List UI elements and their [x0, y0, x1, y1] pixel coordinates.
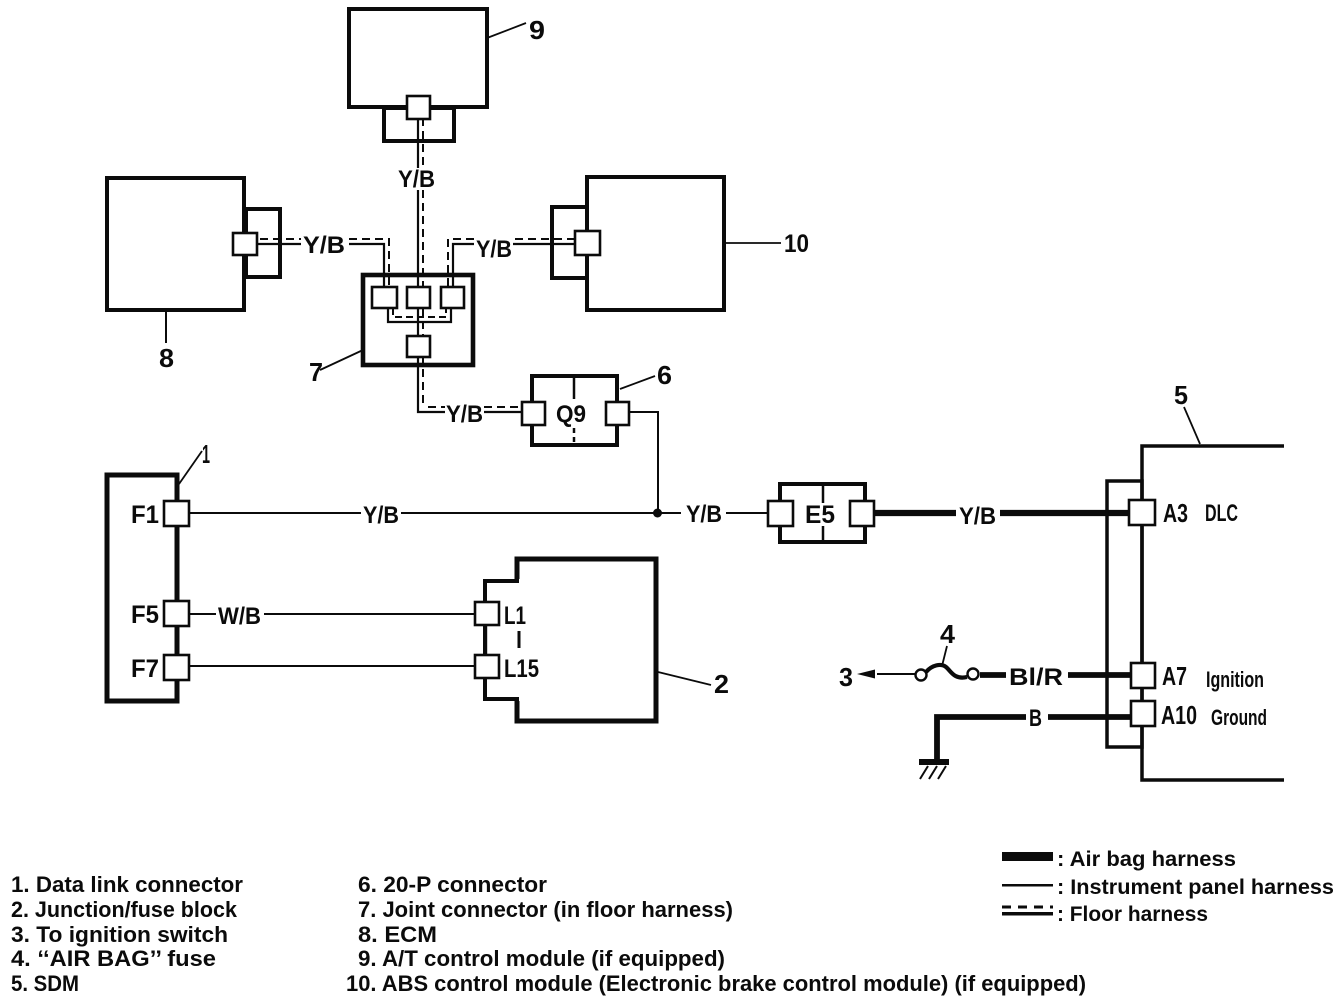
leader line to label 6	[620, 376, 655, 389]
svg-text:2. Junction/fuse block: 2. Junction/fuse block	[11, 897, 238, 922]
leader line to label 4	[942, 646, 947, 666]
pin of module 9	[407, 96, 430, 119]
svg-text:Bl/R: Bl/R	[1009, 664, 1063, 691]
module 9 connector shell	[384, 108, 454, 141]
floor harness wire: joint connector to connector Q9 (dashed)	[423, 356, 519, 407]
svg-text:: Instrument panel harness: : Instrument panel harness	[1057, 876, 1334, 899]
svg-text:10: 10	[784, 230, 809, 258]
svg-text:F5: F5	[131, 601, 159, 629]
pin of module 10	[575, 231, 600, 255]
svg-text:Y/B: Y/B	[446, 401, 483, 428]
svg-text:1. Data link connector: 1. Data link connector	[11, 872, 243, 897]
svg-text:E5: E5	[805, 501, 835, 529]
svg-text:4. ‘‘AIR BAG’’ fuse: 4. ‘‘AIR BAG’’ fuse	[11, 946, 216, 971]
svg-text:3. To ignition switch: 3. To ignition switch	[11, 922, 228, 947]
svg-text:A10: A10	[1161, 700, 1197, 730]
joint connector pin 3	[441, 287, 464, 308]
junction block connector shell	[485, 581, 519, 699]
svg-text:Y/B: Y/B	[398, 166, 435, 193]
svg-text:2: 2	[714, 669, 729, 699]
AIR BAG fuse element	[926, 665, 967, 678]
junction node dot	[653, 509, 662, 518]
svg-text:L1: L1	[504, 602, 526, 630]
floor harness wire: module 10 to joint connector (dashed)	[448, 239, 575, 288]
floor harness wire: module 10 to joint connector (solid)	[453, 244, 575, 288]
svg-text:A7: A7	[1162, 661, 1187, 691]
joint connector 7 box	[363, 275, 473, 365]
pin F1	[164, 501, 189, 526]
pin of module 8	[233, 233, 257, 255]
leader line to label 5	[1184, 407, 1200, 444]
svg-text:9: 9	[529, 15, 545, 45]
SDM pin A10	[1131, 701, 1155, 726]
svg-text:Y/B: Y/B	[686, 501, 722, 528]
joint connector internal bus (solid)	[388, 308, 451, 322]
svg-text:10. ABS control module (Electr: 10. ABS control module (Electronic brake…	[346, 971, 1086, 996]
instrument panel harness wire: F7 to L15	[189, 665, 478, 667]
leader line to label 9	[487, 23, 526, 38]
svg-text:W/B: W/B	[218, 603, 261, 630]
svg-text:5: 5	[1174, 380, 1188, 410]
svg-text:Ground: Ground	[1211, 705, 1267, 730]
svg-text:7. Joint connector (in floor h: 7. Joint connector (in floor harness)	[358, 897, 733, 922]
svg-text:L15: L15	[504, 655, 539, 683]
junction/fuse block 2 box	[517, 559, 656, 721]
module 8 box (ECM)	[107, 178, 244, 310]
joint connector pin 1	[372, 287, 397, 308]
joint connector internal bus (dashed)	[393, 308, 446, 317]
svg-text:6: 6	[657, 360, 672, 390]
svg-text:Y/B: Y/B	[303, 232, 345, 259]
SDM pin A3	[1129, 500, 1155, 525]
connector E5 left pin	[768, 501, 793, 526]
SDM 5 module outline	[1142, 446, 1284, 780]
svg-text:Y/B: Y/B	[363, 502, 399, 529]
module 10 box (ABS control module)	[587, 177, 724, 310]
floor harness wire: module 9 pin down (dashed)	[422, 118, 424, 336]
svg-text:B: B	[1029, 705, 1042, 732]
connector 6 bottom center mark	[573, 428, 576, 443]
legend floor harness dashed line	[1002, 906, 1053, 909]
svg-text:: Floor harness: : Floor harness	[1057, 903, 1208, 926]
svg-text:1: 1	[202, 439, 210, 469]
svg-text:: Air bag harness: : Air bag harness	[1057, 848, 1236, 871]
svg-text:5. SDM: 5. SDM	[11, 971, 79, 996]
legend floor harness solid line	[1002, 912, 1053, 916]
connector E5 top center mark	[822, 486, 825, 503]
wire: Q9 right pin to junction node	[629, 412, 658, 513]
module 9 box (A/T control module)	[349, 9, 487, 107]
legend air bag harness bar	[1002, 852, 1053, 861]
leader line to label 7	[320, 350, 363, 370]
data link connector 1 box	[107, 475, 177, 701]
instrument panel harness wire: F1 to E5	[189, 512, 768, 514]
connector 6 top center mark	[573, 378, 576, 399]
leader line to label 1	[179, 451, 202, 484]
svg-text:Q9: Q9	[556, 401, 586, 428]
connector E5 right pin	[850, 501, 874, 526]
connector Q9 left pin	[522, 402, 545, 425]
AIR BAG fuse terminal left	[916, 670, 927, 681]
shell center mark	[518, 631, 521, 648]
connector E5 box	[780, 484, 865, 542]
svg-text:3: 3	[839, 662, 853, 692]
svg-text:DLC: DLC	[1205, 500, 1238, 527]
leader line to label 8	[165, 312, 167, 343]
joint connector lower pin	[407, 336, 430, 357]
connector E5 bottom center mark	[822, 526, 825, 540]
SDM connector shell	[1107, 481, 1142, 747]
air bag harness wire: E5 to A3 (thick)	[872, 510, 1132, 516]
floor harness wire: module 8 to joint connector (solid)	[257, 244, 384, 288]
legend instrument panel harness line	[1002, 884, 1053, 887]
AIR BAG fuse terminal right	[968, 669, 979, 680]
ignition feed arrow (to ignition switch)	[877, 673, 920, 675]
pin L1	[475, 602, 499, 625]
connector 6 box (Q9 20-P connector)	[532, 376, 617, 445]
arrow head	[857, 670, 875, 679]
svg-text:8. ECM: 8. ECM	[358, 922, 437, 947]
svg-text:9. A/T control module (if equi: 9. A/T control module (if equipped)	[358, 946, 725, 971]
leader line to label 10	[726, 242, 781, 244]
svg-text:4: 4	[940, 619, 956, 649]
joint connector pin 2	[407, 287, 430, 308]
module 10 connector shell	[552, 207, 587, 278]
air bag harness wire: fuse to A7 (thick)	[980, 672, 1132, 678]
module 8 connector shell	[246, 209, 280, 277]
link wire between L1 and L15 pins	[485, 624, 487, 656]
svg-text:6. 20-P connector: 6. 20-P connector	[358, 872, 547, 897]
svg-text:8: 8	[159, 343, 174, 373]
svg-text:Y/B: Y/B	[959, 503, 996, 530]
floor harness wire: module 9 pin down to joint connector (solid)	[417, 118, 419, 336]
floor harness wire: module 8 to joint connector (dashed)	[260, 239, 389, 288]
leader line to label 2	[658, 672, 711, 685]
svg-text:F1: F1	[131, 501, 159, 529]
svg-text:Ignition: Ignition	[1206, 667, 1264, 692]
air bag harness wire: ground to A10 (thick)	[937, 717, 1132, 761]
svg-text:A3: A3	[1163, 498, 1188, 528]
connector Q9 right pin	[606, 402, 629, 425]
pin F5	[164, 601, 189, 626]
floor harness wire: joint connector to connector Q9 (solid)	[418, 356, 522, 412]
ground symbol hatches	[920, 766, 946, 779]
pin F7	[164, 655, 189, 680]
svg-text:Y/B: Y/B	[476, 236, 512, 263]
instrument panel harness wire: F5 to L1	[189, 613, 478, 615]
ground symbol	[919, 759, 949, 765]
SDM pin A7	[1131, 663, 1155, 688]
svg-text:7: 7	[309, 357, 323, 387]
svg-text:F7: F7	[131, 655, 159, 683]
pin L15	[475, 655, 499, 678]
